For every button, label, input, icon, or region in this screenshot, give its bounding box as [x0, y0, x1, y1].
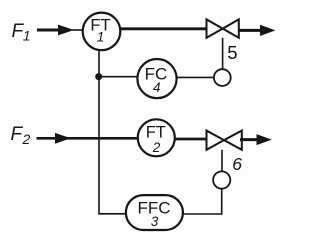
ratio controller FFC3 — [126, 195, 183, 230]
wire valve 6 stem — [221, 150, 223, 172]
arrowhead outlet 2 — [257, 134, 272, 145]
wire junction to FC4 — [99, 76, 138, 78]
control valve 5 body — [207, 19, 239, 37]
wire F2 inlet bold line — [37, 137, 139, 140]
svg-text:6: 6 — [232, 154, 242, 174]
svg-text:2: 2 — [22, 131, 31, 147]
flow transmitter FT1 — [83, 13, 121, 51]
wire valve 6 outlet bold line — [240, 138, 258, 141]
label F2 — [11, 124, 31, 147]
flow controller FC4 — [137, 59, 176, 98]
control valve 6 body — [207, 131, 242, 150]
wire FT1 signal down to FFC3 — [99, 50, 126, 214]
wire actuator 6 down to FFC3 — [183, 189, 222, 214]
wire FT2 to valve 6 bold line — [175, 138, 207, 141]
svg-text:1: 1 — [23, 28, 31, 44]
svg-text:3: 3 — [151, 214, 159, 229]
wire valve 5 outlet bold line — [239, 29, 262, 32]
wire FC4 to actuator 5 — [177, 76, 214, 78]
wire F1 inlet bold line — [37, 29, 62, 32]
svg-text:4: 4 — [153, 80, 161, 95]
arrowhead F2 inlet — [55, 133, 71, 144]
svg-text:2: 2 — [152, 140, 161, 155]
flow transmitter FT2 — [138, 119, 175, 156]
arrowhead outlet 1 — [260, 25, 275, 36]
node junction dot — [95, 73, 102, 80]
label F1 — [12, 21, 31, 44]
wire arrowhead to FT1 — [72, 29, 83, 31]
actuator diaphragm valve 6 — [213, 171, 230, 188]
arrowhead F1 inlet — [58, 25, 74, 36]
svg-text:1: 1 — [97, 30, 105, 45]
wire valve 5 stem — [222, 38, 224, 70]
actuator diaphragm valve 5 — [214, 69, 231, 86]
svg-text:FT: FT — [146, 123, 166, 141]
wire FT1 to valve 5 bold line — [120, 27, 206, 30]
svg-text:5: 5 — [227, 42, 237, 63]
